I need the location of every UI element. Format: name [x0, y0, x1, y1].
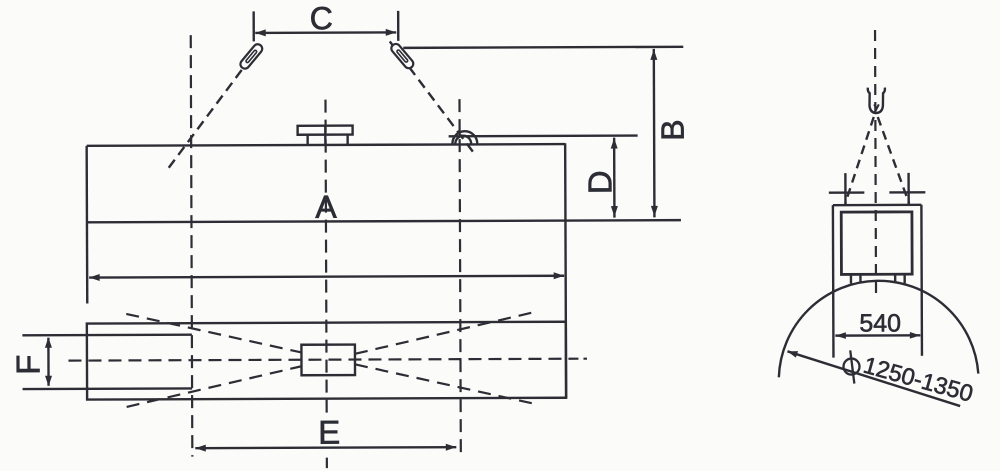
svg-text:B: B — [655, 119, 691, 140]
svg-text:540: 540 — [859, 309, 901, 337]
svg-text:D: D — [581, 170, 618, 194]
svg-text:A: A — [315, 189, 337, 225]
svg-text:1250-1350: 1250-1350 — [861, 352, 976, 407]
svg-text:F: F — [9, 355, 46, 375]
svg-text:C: C — [310, 0, 333, 36]
svg-text:E: E — [318, 414, 340, 451]
